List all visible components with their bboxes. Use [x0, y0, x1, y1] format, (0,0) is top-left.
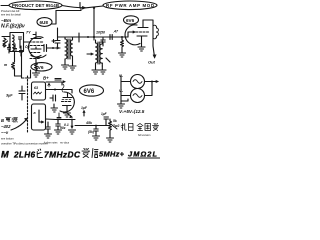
printed caption bottom row [1, 142, 70, 146]
plate wire to vertical [143, 20, 158, 46]
svg-text:Ōµ: Ōµ [25, 45, 30, 49]
filter can box B1 [32, 82, 46, 100]
svg-text:~402: ~402 [1, 124, 11, 129]
svg-text:Product det AF: Product det AF [1, 9, 20, 13]
marks above bottom wire [57, 113, 73, 119]
wire grid to T1 [24, 41, 30, 43]
ground equivalent circuit [118, 101, 125, 108]
potentiometer pot at far left [2, 37, 10, 48]
IF transformer box T1 [8, 33, 24, 57]
svg-text:3µF: 3µF [6, 94, 13, 98]
ground below T2 [62, 62, 69, 69]
bypass cap C2 [4, 52, 21, 76]
cap C7 to ground [55, 120, 66, 135]
svg-text:V₁: V₁ [119, 74, 124, 78]
svg-text:5MHz+: 5MHz+ [99, 150, 125, 159]
svg-text:7Y: 7Y [26, 31, 31, 35]
svg-text:see bottom: see bottom [1, 137, 14, 141]
tube label 6U8 oval [37, 18, 52, 27]
AC source V2 [119, 89, 145, 103]
svg-text:rev docs: rev docs [60, 142, 70, 145]
svg-text:Out: Out [148, 60, 156, 65]
labels on rail [96, 30, 119, 35]
printed caption rows upper left [1, 9, 21, 17]
cap C4 3uF [6, 86, 25, 100]
arrow into V3 grid [128, 31, 136, 37]
svg-text:PRODUCT DET 9514B: PRODUCT DET 9514B [12, 3, 59, 8]
oval label 6V6 mid-left [31, 63, 52, 71]
svg-text:full version: full version [138, 133, 151, 137]
cap C6 to ground [45, 122, 52, 138]
wire vertical node at x57 [55, 28, 60, 48]
transformer T3 [96, 40, 103, 67]
svg-text:V₂: V₂ [119, 89, 124, 93]
vertical wire x94 node [79, 8, 95, 42]
grid cap C5 [50, 95, 58, 112]
wire vertical x30 lower left [30, 70, 32, 78]
resistor R4 vertical [107, 119, 120, 142]
arrow into T3 [87, 53, 94, 55]
svg-text:2LH6: 2LH6 [13, 151, 35, 160]
tube V1 envelope [28, 32, 46, 63]
out arrow [148, 46, 156, 65]
ground below T3 primary [92, 67, 99, 74]
svg-text:a: a [34, 111, 36, 115]
wire stub left of title [1, 5, 9, 7]
svg-text:N.F.(βz)βν: N.F.(βz)βν [1, 24, 25, 30]
title oval PRODUCT DET [9, 1, 62, 10]
svg-text:RF PWR AMP MOD: RF PWR AMP MOD [106, 3, 154, 8]
svg-text:M: M [1, 150, 9, 160]
svg-text:~Bm: ~Bm [1, 18, 11, 23]
handwritten note upper left [1, 18, 25, 30]
decoupling cap C3 on rail [101, 37, 105, 46]
svg-text:0.1: 0.1 [64, 123, 69, 127]
svg-text:(5k): (5k) [88, 130, 95, 134]
svg-text:overdrive TiPa direct conversi: overdrive TiPa direct conversion receive… [1, 142, 48, 146]
svg-text:~~ν: ~~ν [1, 130, 9, 135]
wire from T4 to bottom network [46, 119, 76, 121]
svg-text:1µF: 1µF [81, 106, 88, 110]
equivalent circuit right: loop [121, 75, 159, 101]
big handwriting bottom row [1, 149, 157, 160]
cap C8 to ground [88, 126, 100, 141]
svg-text:B: B [1, 118, 4, 123]
svg-text:45k: 45k [85, 121, 93, 125]
B+ rail wire [58, 36, 129, 38]
cathode ground V3 [138, 44, 145, 51]
wire top of V2 area [46, 79, 66, 86]
svg-text:7MHzDC: 7MHzDC [44, 150, 81, 160]
arrow pointing at T4 [11, 118, 28, 130]
svg-text:B+: B+ [43, 76, 49, 81]
underline bottom right [128, 157, 160, 159]
wire down right of box [22, 52, 25, 79]
svg-text:6U8: 6U8 [40, 20, 49, 25]
svg-text:JMΩ2L: JMΩ2L [128, 150, 157, 159]
1uF cap top right of network [101, 112, 108, 126]
wire bottom mid [75, 121, 108, 126]
grid resistor R3 right [119, 37, 126, 57]
tube V3 output [125, 20, 148, 45]
big oval label 6V6 [80, 85, 104, 96]
small 1uF note mid [81, 106, 88, 110]
ground below T2 secondary [69, 60, 76, 70]
AC source V1 [119, 74, 145, 89]
filter can box B2 [32, 104, 46, 130]
svg-text:6V6: 6V6 [84, 89, 95, 95]
svg-text:V₁+5V₀(12.5: V₁+5V₀(12.5 [119, 109, 145, 114]
wire top rail left [52, 8, 81, 24]
up arrow below note [83, 110, 85, 116]
plus mark and cap near T2 top [52, 40, 55, 43]
svg-text:further notes: further notes [44, 142, 58, 145]
handwritten block lower left [1, 118, 18, 135]
svg-text:7w2: 7w2 [113, 124, 120, 128]
svg-text:63: 63 [34, 86, 38, 90]
coupling capacitor C1 [44, 45, 60, 52]
cathode ground V2 [64, 109, 71, 117]
ground below T3 secondary [100, 58, 111, 74]
handwriting row right mid [112, 124, 159, 138]
shield dashed line [26, 76, 30, 132]
oval label 6V6 top right [124, 16, 139, 24]
tube V2 envelope [60, 92, 74, 112]
arrow B down [64, 120, 76, 135]
title oval RF PWR AMP [103, 1, 157, 10]
series cap on rail [110, 35, 112, 40]
transformer T2 primary winding [65, 37, 73, 62]
svg-text:see text for detail: see text for detail [1, 13, 21, 17]
wire into V2 grid [46, 82, 72, 93]
cathode resistor R2 below tube [33, 63, 40, 77]
svg-text:6V6: 6V6 [126, 18, 135, 23]
wire between title ovals [62, 3, 103, 10]
svg-text:6V6: 6V6 [35, 65, 44, 71]
svg-text:10|50: 10|50 [96, 31, 105, 35]
